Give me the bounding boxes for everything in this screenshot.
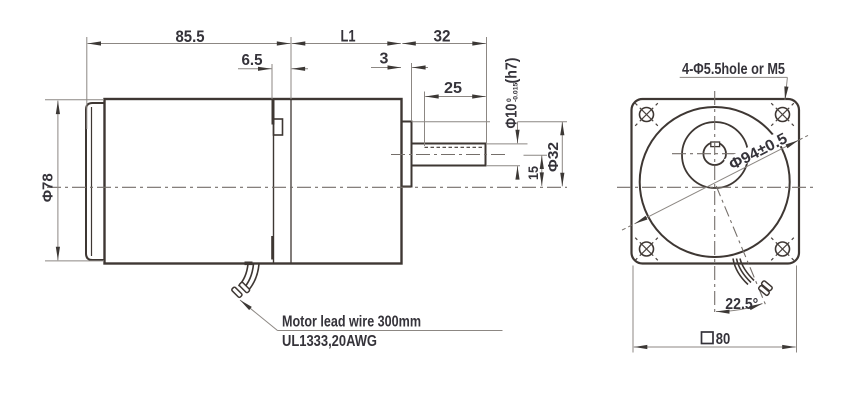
mounting hole TL [635, 103, 658, 126]
thick bar near bottom of joint line [271, 236, 274, 260]
shaft centerline [391, 154, 509, 156]
22.5 degree arc with arrows [716, 296, 763, 313]
svg-text:25: 25 [444, 80, 462, 97]
dimension phi94 bolt circle [622, 129, 808, 231]
tab on joint line [274, 119, 283, 135]
lead wires (side view) [239, 264, 260, 293]
shaft flat notch [711, 142, 720, 147]
dimension 6.5 [238, 52, 308, 99]
dimension 3 [371, 51, 428, 122]
shaft crosshair horizontal [672, 153, 759, 155]
svg-text:L1: L1 [341, 27, 356, 46]
joint line B (motor front face) [290, 99, 292, 264]
leader: motor lead wire [240, 300, 503, 350]
gearhead circle [640, 107, 790, 257]
horizontal centerline [617, 186, 813, 188]
dimension L1 [291, 27, 401, 100]
mounting hole BR [771, 238, 794, 261]
shaft circle phi10 [703, 142, 726, 165]
mounting hole BL [635, 238, 658, 261]
svg-text:Φ32: Φ32 [546, 142, 562, 172]
leader: 4-phi5.5 hole or M5 [680, 61, 788, 100]
shaft [412, 144, 486, 166]
wire terminal pins (front view) [758, 280, 773, 296]
svg-text:4-Φ5.5hole or M5: 4-Φ5.5hole or M5 [682, 61, 785, 78]
lead wires (front view) [733, 259, 754, 285]
svg-text:Φ10: Φ10 [504, 104, 521, 129]
dimension phi32 [412, 122, 567, 187]
svg-text:3: 3 [380, 51, 389, 68]
22.5 degree slant centerline [716, 186, 766, 307]
svg-text:15: 15 [525, 166, 541, 180]
motor body outline [105, 99, 402, 264]
svg-text:80: 80 [716, 331, 731, 348]
svg-text:85.5: 85.5 [176, 27, 205, 46]
lead wire exit stub [245, 262, 253, 266]
joint line A (motor end bell) [272, 99, 275, 264]
svg-text:UL1333,20AWG: UL1333,20AWG [282, 333, 377, 350]
dimension phi10 h7 [486, 58, 528, 179]
dimension square 80 [633, 266, 797, 353]
dimension 15 (shaft offset) [524, 155, 548, 186]
front boss [402, 122, 412, 187]
svg-text:Motor lead wire 300mm: Motor lead wire 300mm [282, 314, 421, 331]
body centerline [47, 186, 567, 188]
dimension 85.5 [87, 27, 290, 129]
svg-text:(h7): (h7) [504, 58, 521, 84]
dimension 32 (shaft length) [402, 27, 486, 144]
svg-text:Φ78: Φ78 [41, 173, 57, 202]
mounting hole TR [771, 103, 794, 126]
svg-text:22.5°: 22.5° [725, 296, 758, 313]
svg-text:-0.015: -0.015 [512, 83, 519, 102]
svg-text:6.5: 6.5 [242, 52, 263, 69]
wire terminal pins (side view) [231, 282, 250, 298]
mounting flange square [632, 99, 800, 264]
boss circle phi32 [682, 122, 748, 188]
shaft flat dashed line [425, 146, 486, 148]
rear cap [86, 103, 105, 260]
vertical centerline [714, 91, 716, 315]
svg-text:32: 32 [434, 27, 451, 46]
dimension 25 (flat length) [425, 80, 486, 146]
dimension phi78 [41, 100, 105, 261]
